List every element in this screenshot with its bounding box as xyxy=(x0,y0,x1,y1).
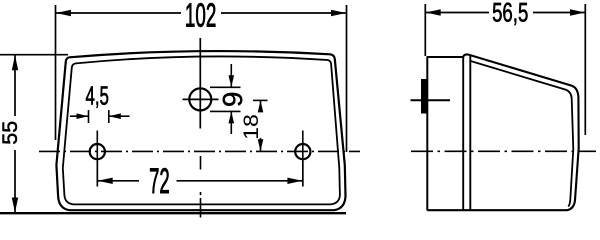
dimension 56,5 extension line left xyxy=(424,4,426,56)
dimension line 55 (vertical) xyxy=(14,55,16,116)
arrowhead 102 right xyxy=(331,10,346,16)
dimension 18 upper arrow (points up to tick) xyxy=(260,100,262,110)
arrowhead 72 right xyxy=(287,178,302,184)
dimension 9 tick bottom xyxy=(210,110,241,112)
side view top edge xyxy=(427,56,464,58)
right hole vertical line xyxy=(302,131,304,187)
svg-text:56,5: 56,5 xyxy=(492,0,528,28)
dimension 4,5 tick left xyxy=(88,110,90,123)
dimension line 102 xyxy=(56,12,181,14)
dimension 102 extension line left xyxy=(55,5,57,140)
bulb hole horizontal diameter line xyxy=(183,98,219,100)
dimension 72 extension right xyxy=(302,160,304,187)
svg-text:4,5: 4,5 xyxy=(85,81,108,111)
vertical axis dash-dot below bulb hole xyxy=(200,156,202,170)
dimension 56,5 extension line right xyxy=(584,4,586,135)
arrowhead 102 left xyxy=(56,10,71,16)
arrowhead 4,5 right-pointing xyxy=(77,113,89,119)
dimension 18 tick top xyxy=(253,99,268,101)
side view lens lip + outer slant + right edge + bottom corner xyxy=(427,54,578,210)
arrowhead 4,5 left-pointing xyxy=(109,113,121,119)
dimension 9 upper arrow line xyxy=(230,64,232,87)
mounting hole left xyxy=(90,144,105,159)
side view centerline xyxy=(411,150,596,152)
dimension 72 extension left xyxy=(96,160,98,187)
dimension line 56,5 xyxy=(426,12,489,14)
front view outer outline xyxy=(56,51,345,210)
dimension 9 lower arrow line xyxy=(230,111,232,134)
side view back edge xyxy=(426,57,428,211)
arrowhead 72 left xyxy=(98,178,113,184)
baseline (mounting plane) xyxy=(0,212,346,214)
arrowhead 56,5 right xyxy=(570,9,585,15)
dimension 55 extension line top xyxy=(0,54,68,56)
side view seam line inner xyxy=(469,56,471,210)
side view inner slant + inner right edge xyxy=(471,61,574,207)
svg-text:102: 102 xyxy=(185,0,216,34)
arrowhead 56,5 left xyxy=(426,9,441,15)
left hole vertical line xyxy=(96,131,98,187)
arrowhead 55 up xyxy=(12,55,18,70)
svg-text:55: 55 xyxy=(0,121,22,145)
front view inner outline xyxy=(63,56,340,204)
mounting hole right xyxy=(295,144,310,159)
side view grommet tab (black) xyxy=(421,79,428,114)
dimension 102 extension line right xyxy=(346,5,348,152)
dimension 9 tick top xyxy=(210,86,241,88)
svg-text:72: 72 xyxy=(149,162,170,201)
bulb hole U1 xyxy=(189,88,211,110)
horizontal centerline through mounting holes (front) xyxy=(39,150,360,152)
side view bulb axis cross line xyxy=(411,99,451,101)
bulb hole vertical centerline xyxy=(199,38,201,129)
svg-text:18: 18 xyxy=(239,114,263,140)
arrowhead 55 down xyxy=(12,198,18,213)
svg-text:9: 9 xyxy=(217,92,248,108)
side view seam line outer xyxy=(462,57,464,210)
dimension 18 lower line + arrow down to centerline xyxy=(260,138,262,151)
dimension line 72 xyxy=(98,180,139,182)
dimension 4,5 tick right xyxy=(108,110,110,123)
dimension line 4,5 xyxy=(70,115,89,117)
